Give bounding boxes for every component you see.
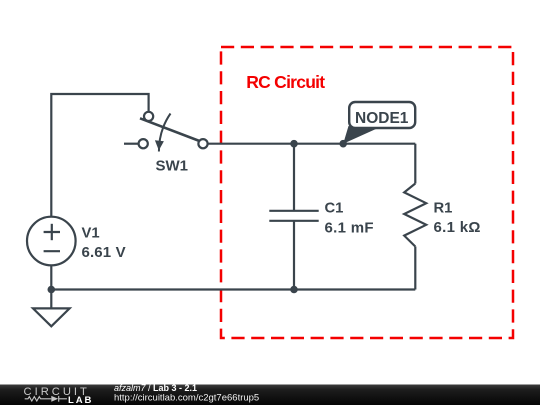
svg-text:6.61 V: 6.61 V: [82, 244, 126, 261]
voltage source V1: [27, 217, 76, 266]
svg-text:SW1: SW1: [156, 157, 189, 174]
junction dot at C1 top node: [290, 140, 298, 148]
svg-text:LAB: LAB: [68, 395, 93, 405]
svg-text:NODE1: NODE1: [355, 110, 409, 127]
svg-text:http://circuitlab.com/c2gt7e66: http://circuitlab.com/c2gt7e66trup5: [114, 393, 259, 404]
arrowhead: [155, 140, 164, 150]
svg-text:RC Circuit: RC Circuit: [246, 72, 325, 92]
right terminal: [198, 139, 207, 148]
svg-text:V1: V1: [82, 225, 100, 241]
wire R1 bottom lead: [414, 247, 416, 290]
wire top-left loop (V1 top to SW1 top terminal): [51, 94, 148, 217]
wire C1 top lead: [293, 144, 295, 210]
junction dot at C1 bottom node: [290, 286, 298, 294]
wire C1 bottom lead: [293, 222, 295, 290]
left terminal: [139, 139, 148, 148]
junction dot at ground node: [48, 286, 56, 294]
switch SW1: [139, 112, 208, 152]
svg-text:R1: R1: [434, 201, 453, 217]
actuation arrow arc: [159, 114, 171, 152]
blade: [140, 118, 200, 141]
wire SW1 right terminal to node line: [208, 143, 416, 145]
junction dot NODE1: [339, 140, 347, 148]
footer logo resistor-diode squiggle: [25, 396, 67, 402]
svg-text:C1: C1: [325, 200, 344, 216]
node flag NODE1: [343, 102, 415, 144]
wire SW1 left stub: [124, 143, 139, 145]
wire V1 bottom to ground node: [50, 266, 52, 290]
top terminal: [144, 112, 153, 121]
wire bottom rail: [51, 288, 415, 290]
footer bar: [0, 385, 540, 405]
wire R1 top lead: [414, 144, 416, 184]
ground: [33, 290, 70, 327]
capacitor C1: [269, 211, 318, 221]
svg-text:6.1 kΩ: 6.1 kΩ: [434, 219, 481, 236]
svg-text:6.1 mF: 6.1 mF: [325, 220, 374, 237]
annotation box RC Circuit (red dashed): [221, 47, 513, 338]
resistor R1: [404, 184, 426, 247]
